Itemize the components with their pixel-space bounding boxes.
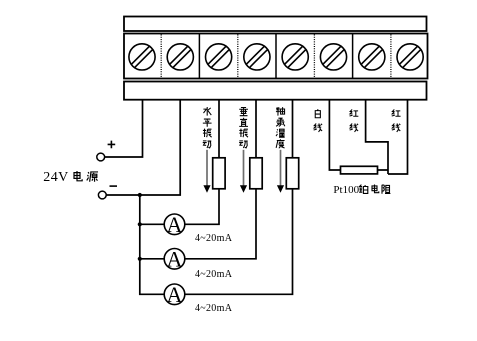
svg-text:4~20mA: 4~20mA: [195, 233, 233, 244]
svg-text:A: A: [167, 246, 183, 271]
svg-text:Pt100: Pt100: [333, 184, 359, 196]
svg-text:A: A: [167, 212, 183, 237]
svg-text:24V: 24V: [43, 170, 68, 185]
svg-text:A: A: [167, 282, 183, 307]
svg-text:4~20mA: 4~20mA: [195, 303, 233, 314]
svg-text:4~20mA: 4~20mA: [195, 269, 233, 280]
